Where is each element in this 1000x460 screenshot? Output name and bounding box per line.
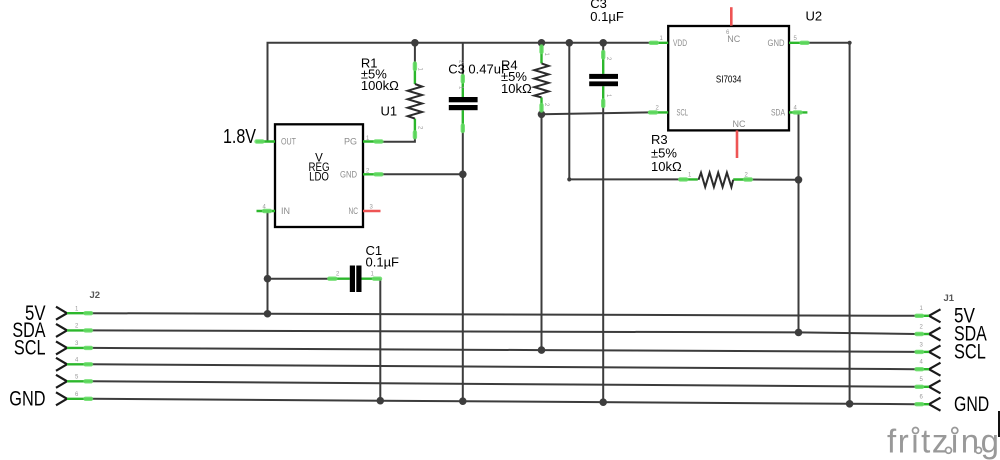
svg-text:GND: GND: [954, 393, 989, 416]
node U1 GND / C3a: [459, 171, 467, 179]
svg-text:U1: U1: [381, 104, 398, 119]
svg-text:LDO: LDO: [309, 172, 329, 184]
svg-text:GND: GND: [340, 169, 357, 179]
node 5V row: [264, 310, 272, 318]
wire R1 top drop: [414, 43, 416, 63]
svg-text:SI7034: SI7034: [716, 75, 742, 86]
right edge black sliver: [998, 411, 1000, 437]
node R4 bottom / SCL: [538, 111, 546, 119]
wire 1.8V rail: OUT riser + top rail: [268, 43, 652, 142]
pin PG 1: [363, 140, 382, 142]
wire C3 0.1uF bottom down to GND row: [602, 106, 604, 403]
J2 pin 2 (SDA): [56, 324, 67, 337]
svg-text:OUT: OUT: [281, 137, 296, 147]
svg-text:0.1µF: 0.1µF: [366, 254, 400, 269]
J1 pin 2 (SDA): [929, 328, 941, 341]
svg-text:PG: PG: [344, 137, 357, 147]
wire row 5: [92, 381, 916, 387]
svg-text:NC: NC: [733, 119, 746, 129]
svg-text:10kΩ: 10kΩ: [501, 81, 532, 96]
wire R3 right to SDA riser: [751, 179, 799, 181]
node GND row C3a: [459, 397, 467, 405]
svg-text:J1: J1: [944, 293, 955, 304]
node rail-C3b: [599, 39, 607, 47]
node SDA row: [795, 329, 803, 337]
svg-text:10kΩ: 10kΩ: [651, 159, 682, 174]
node GND row C1: [377, 397, 385, 405]
pin IN 4: [257, 210, 276, 212]
node R3 left bend: [567, 177, 571, 181]
node rail-R1: [411, 39, 419, 47]
pin NC 6 top (red): [730, 7, 733, 26]
node C1 / IN junction: [264, 275, 272, 283]
wire U2 GND to right riser down to GND row: [808, 43, 850, 404]
wire C3 0.1uF top drop: [602, 43, 604, 53]
op-amp U1 body: [275, 124, 363, 227]
svg-text:SCL: SCL: [954, 341, 986, 364]
wire C3 0.47uF bottom to GND row: [462, 131, 464, 401]
node GND row C3b: [599, 398, 607, 406]
pin VDD 1: [650, 42, 668, 44]
J2 pin 5: [56, 375, 67, 388]
svg-text:0.1µF: 0.1µF: [590, 9, 624, 24]
pin SCL 2: [648, 111, 668, 113]
wire C1 right down to GND row: [379, 279, 381, 401]
J1 pin 4: [929, 363, 941, 376]
wire U1 IN down / C1 riser to 5V row: [267, 211, 269, 314]
wire R4 top drop: [541, 43, 543, 47]
pin GND 5: [789, 42, 808, 44]
wire U2 SDA down to SDA row: [798, 112, 800, 332]
svg-text:frıtzıng: frıtzıng: [887, 423, 999, 460]
pin SDA 4: [789, 111, 807, 113]
wire U1 GND pin to C3 junction: [382, 173, 463, 175]
wire R1 bottom to PG: [382, 138, 415, 142]
svg-text:SCL: SCL: [677, 107, 689, 117]
J1 pin 3 (SCL): [929, 345, 941, 358]
J2 pin 6 (GND): [56, 392, 67, 405]
J1 pin 1 (5V): [929, 309, 941, 322]
pin NC 3 bottom (red): [736, 130, 739, 158]
svg-text:J2: J2: [90, 290, 101, 301]
wire R4 junction to U2 SCL pin: [542, 112, 651, 114]
J2 pin 3 (SCL): [56, 341, 67, 354]
pin OUT: [256, 140, 275, 142]
node rail-R3riser: [566, 39, 574, 47]
node U2 GND bend: [848, 41, 852, 45]
svg-text:SCL: SCL: [14, 337, 46, 360]
wire C3 0.47uF top drop: [462, 43, 464, 77]
node rail-R4: [538, 39, 546, 47]
wire R4 bottom down to SCL row: [541, 110, 543, 350]
wire row SDA: [92, 330, 916, 334]
wire row SCL: [92, 348, 916, 352]
fritzing watermark: [887, 423, 999, 460]
wire row GND: [92, 399, 916, 404]
J2 pin 4: [56, 358, 67, 371]
pin NC 3 (red): [363, 210, 381, 213]
svg-text:NC: NC: [349, 206, 359, 216]
node SCL row: [538, 346, 546, 354]
svg-text:IN: IN: [281, 206, 290, 216]
wire row 4: [92, 364, 916, 369]
J1 pin 6 (GND): [929, 398, 941, 411]
node GND row U2: [846, 400, 854, 408]
wire row 5V J2 to J1: [92, 313, 916, 316]
wire C1 left branch: [268, 278, 330, 280]
svg-text:C3 0.47uF: C3 0.47uF: [448, 61, 509, 76]
svg-text:VDD: VDD: [673, 38, 687, 48]
svg-text:1.8V: 1.8V: [223, 125, 256, 148]
svg-text:SDA: SDA: [771, 107, 785, 117]
svg-text:GND: GND: [768, 38, 785, 48]
pin GND 2: [363, 173, 382, 175]
node R3 right / SDA riser: [795, 176, 803, 184]
svg-text:100kΩ: 100kΩ: [361, 78, 399, 93]
J1 pin 5: [929, 380, 941, 393]
svg-text:U2: U2: [806, 8, 823, 23]
J2 pin 1 (5V): [56, 307, 67, 320]
svg-text:GND: GND: [9, 388, 45, 411]
wire R3 riser from rail: [569, 43, 680, 180]
